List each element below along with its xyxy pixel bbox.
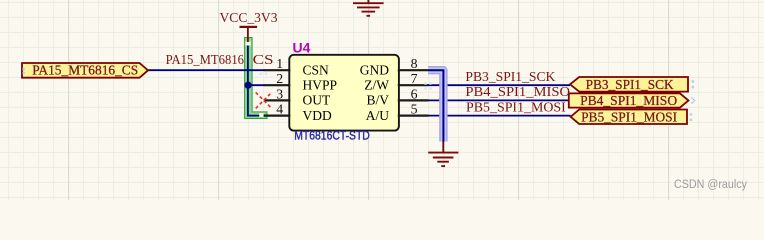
wire PA15_MT6816_CS (port to pin 1): [148, 69, 265, 71]
junction: [245, 82, 252, 89]
wire to pin 4: [247, 115, 265, 117]
selection marks: [23, 68, 695, 121]
svg-text:6: 6: [411, 86, 418, 101]
wire VCC_3V3 vertical: [247, 42, 249, 116]
pin 8: [398, 69, 429, 71]
svg-text:VDD: VDD: [303, 108, 332, 123]
pin 4: [264, 114, 291, 116]
svg-text:GND: GND: [360, 62, 389, 77]
wire pin6 to port PB4_SPI1_MISO: [429, 99, 569, 101]
svg-text:PB5_SPI1_MOSI: PB5_SPI1_MOSI: [466, 99, 566, 114]
IC U4 body: [289, 55, 399, 131]
port PA15_MT6816_CS: [22, 63, 148, 78]
svg-text:PB3_SPI1_SCK: PB3_SPI1_SCK: [465, 69, 555, 84]
svg-text:HVPP: HVPP: [303, 77, 338, 92]
svg-text:1: 1: [276, 56, 283, 71]
svg-text:7: 7: [411, 71, 418, 86]
selection chevron at MISO port: [691, 97, 695, 104]
port PB4_SPI1_MISO: [569, 93, 689, 108]
wire selection highlight (VCC net, selected): [245, 38, 267, 119]
wire pin7 to port PB3_SPI1_SCK: [429, 84, 571, 86]
svg-text:MT6816CT-STD: MT6816CT-STD: [294, 130, 370, 142]
svg-text:CSDN @raulcy: CSDN @raulcy: [674, 179, 747, 191]
pin 1: [264, 69, 291, 71]
pin 6: [398, 99, 429, 101]
port PB5_SPI1_MOSI: [571, 109, 687, 124]
svg-text:3: 3: [276, 86, 283, 101]
svg-text:8: 8: [411, 56, 418, 71]
svg-text:PB5_SPI1_MOSI: PB5_SPI1_MOSI: [581, 109, 677, 124]
svg-text:VCC_3V3: VCC_3V3: [220, 10, 278, 25]
pin 2: [264, 84, 291, 86]
wire to pin 2: [248, 84, 265, 86]
pin 7: [398, 84, 429, 86]
power port VCC_3V3: [220, 10, 278, 42]
selection dash marks: [245, 42, 251, 46]
svg-text:2: 2: [276, 71, 283, 86]
vertex marks: [260, 73, 432, 90]
svg-text:B/V: B/V: [366, 93, 389, 108]
svg-text:PB4_SPI1_MISO: PB4_SPI1_MISO: [465, 84, 570, 99]
svg-text:PA15_MT6816: PA15_MT6816: [166, 52, 245, 67]
ground (bottom, GND net): [428, 142, 458, 167]
pin 5: [398, 114, 429, 116]
svg-text:4: 4: [276, 102, 283, 117]
svg-text:OUT: OUT: [303, 93, 331, 108]
svg-text:5: 5: [411, 102, 418, 117]
pin 3: [264, 99, 291, 101]
svg-text:A/U: A/U: [366, 108, 390, 123]
svg-text:CSN: CSN: [303, 62, 330, 77]
svg-text:PB3_SPI1_SCK: PB3_SPI1_SCK: [586, 77, 674, 92]
wire GND (net-highlighted): [428, 70, 443, 142]
svg-text:PB4_SPI1_MISO: PB4_SPI1_MISO: [580, 93, 677, 108]
svg-text:PA15_MT6816_CS: PA15_MT6816_CS: [32, 63, 138, 78]
ground (top): [353, 0, 384, 16]
wire pin5 to port PB5_SPI1_MOSI: [429, 115, 571, 117]
no-ERC marker on pin 3: [256, 92, 272, 108]
svg-text:Z/W: Z/W: [364, 77, 389, 92]
port PB3_SPI1_SCK: [570, 77, 688, 92]
svg-text:U4: U4: [293, 40, 311, 56]
